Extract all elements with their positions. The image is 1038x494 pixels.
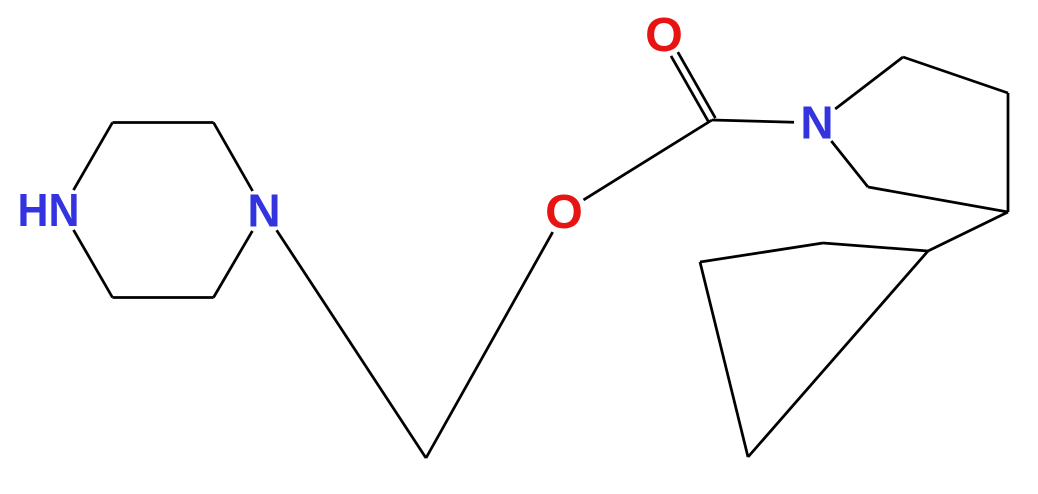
- svg-text:O: O: [645, 8, 683, 62]
- svg-text:N: N: [800, 97, 833, 149]
- svg-text:HN: HN: [18, 184, 80, 236]
- svg-text:O: O: [545, 185, 583, 239]
- svg-text:N: N: [247, 185, 280, 237]
